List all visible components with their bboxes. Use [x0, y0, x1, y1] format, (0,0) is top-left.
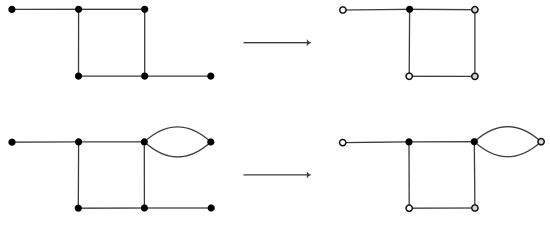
node G2-P white pendant left — [340, 7, 346, 13]
wire G3 TL-BL — [77, 142, 79, 208]
node G2-BR gray square bottom-right — [472, 73, 478, 79]
node G1-A black pendant left — [8, 6, 15, 13]
wire G3 lens top edge TR-LN — [144, 127, 211, 142]
node G1-D black square bottom-left — [75, 73, 82, 80]
wire G1 B-C — [79, 8, 145, 10]
wire G3 BL-BR — [78, 207, 144, 209]
node G1-B black square top-left — [75, 6, 82, 13]
node G3-BL black square bottom-left — [75, 205, 82, 212]
wire G3 lens bottom edge TR-LN — [144, 142, 211, 157]
wire G4 TL-TR — [409, 141, 474, 143]
node G4-BR gray square bottom-right — [472, 205, 478, 211]
wire G2 TR-BR — [474, 10, 476, 77]
node G3-P black pendant left — [8, 139, 15, 146]
wire G4 BL-BR — [409, 207, 475, 209]
wire G1 B-D — [78, 9, 80, 76]
wire G3 BR-RP — [144, 207, 211, 209]
node G3-TR black square top-right (lens left) — [141, 138, 148, 145]
wire G3 TL-TR — [79, 141, 145, 143]
wire G2 BL-BR — [409, 75, 475, 77]
node G1-F black pendant right — [207, 73, 214, 80]
node G3-RP black pendant right — [208, 204, 215, 211]
node G4-TR black square top-right (lens left) — [471, 138, 478, 145]
node G4-P white pendant left — [340, 139, 346, 145]
node G4-TL black square top-left — [405, 138, 412, 145]
wire G4 TL-BL — [408, 142, 410, 208]
wire G1 D-E — [79, 75, 145, 77]
wire G1 C-E — [144, 9, 146, 76]
node G1-C black square top-right — [141, 6, 148, 13]
node G3-BR black square bottom-right — [141, 204, 148, 211]
node G2-TR gray square top-right — [472, 7, 478, 13]
node G4-LN gray lens right — [538, 139, 544, 145]
wire G3 P-TL — [12, 141, 79, 143]
arrow top (G1 to G2) — [244, 40, 311, 46]
wire G1 A-B — [12, 8, 79, 10]
wire G2 TL-TR — [410, 8, 475, 10]
wire G1 E-F — [145, 75, 211, 77]
wire G4 lens top edge TR-LN — [474, 127, 541, 142]
node G2-TL black square top-left — [406, 6, 413, 13]
node G1-E black square bottom-right — [141, 73, 148, 80]
node G3-TL black square top-left — [75, 138, 82, 145]
wire G4 TR-BR — [473, 142, 476, 208]
wire G3 TR-BR — [143, 142, 145, 208]
node G4-BL white square bottom-left — [406, 205, 412, 211]
wire G4 P-TL — [343, 141, 409, 144]
wire G2 P-TL — [343, 8, 410, 11]
node G3-LN black lens right — [207, 138, 214, 145]
arrow bottom (G3 to G4) — [244, 172, 311, 178]
wire G2 TL-BL — [408, 9, 410, 76]
node G2-BL white square bottom-left — [406, 73, 412, 79]
wire G4 lens bottom edge TR-LN — [474, 142, 541, 157]
